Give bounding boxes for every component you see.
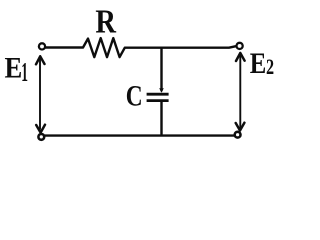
svg-text:E: E xyxy=(250,47,267,79)
svg-text:1: 1 xyxy=(21,57,28,87)
svg-text:R: R xyxy=(95,2,116,40)
svg-text:E: E xyxy=(5,52,23,85)
svg-text:C: C xyxy=(126,79,143,112)
svg-text:2: 2 xyxy=(266,56,274,80)
